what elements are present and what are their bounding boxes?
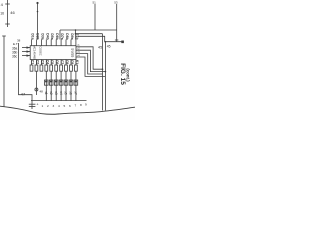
- connector blob: [121, 41, 124, 44]
- wire bottom w2: [45, 71, 47, 100]
- wire bottom w4: [55, 71, 57, 100]
- wire bottom w8: [75, 71, 77, 100]
- wire: U1 left pin 2: [22, 51, 30, 53]
- junction dot rail B: [75, 33, 77, 35]
- svg-text:D9a: D9a: [70, 33, 74, 39]
- junction dot V3: [102, 68, 104, 70]
- svg-text:D1a: D1a: [31, 33, 35, 39]
- box fills: [45, 81, 77, 83]
- svg-text:45: 45: [107, 44, 111, 48]
- wire: right pin 3 route: [76, 54, 103, 74]
- svg-text:3: 3: [53, 104, 55, 108]
- wire V1: [94, 4, 96, 30]
- continuation break line: [0, 106, 135, 114]
- wire: right pin 2 route: [76, 50, 105, 71]
- U1 right pin labels: [71, 44, 80, 58]
- svg-text:6: 6: [69, 104, 71, 108]
- svg-text:36c: 36c: [12, 54, 18, 58]
- svg-text:1: 1: [42, 104, 44, 108]
- svg-text:7: 7: [75, 104, 77, 108]
- svg-text:D4b: D4b: [45, 33, 49, 39]
- svg-text:s7: s7: [74, 91, 78, 95]
- junction dot: [37, 11, 39, 13]
- svg-text:s3: s3: [54, 91, 58, 95]
- svg-text:53: 53: [114, 0, 118, 4]
- wire: U1 left pin 1: [22, 47, 30, 49]
- svg-text:s6: s6: [69, 91, 73, 95]
- bottom pin stubs: [32, 60, 76, 66]
- wire bottom w5: [60, 71, 62, 100]
- svg-text:s4: s4: [59, 91, 63, 95]
- connector symbol: [35, 88, 38, 91]
- arrowhead pin 1: [27, 46, 31, 48]
- wire: clock lead up from pin: [37, 3, 39, 39]
- svg-text:D6b: D6b: [55, 33, 59, 39]
- capacitor C1 plates: [29, 103, 36, 105]
- wire bottom w7: [70, 71, 72, 100]
- svg-text:MC145480: MC145480: [33, 45, 37, 60]
- wire: feed bus to bottom: [19, 43, 33, 109]
- bottom pin boxes: [30, 65, 77, 71]
- tick on left bus top: [2, 35, 6, 37]
- wire V3: [102, 34, 104, 111]
- svg-text:CODEC: CODEC: [39, 46, 43, 55]
- terminal dot top: [36, 2, 38, 4]
- svg-text:s1: s1: [44, 91, 48, 95]
- svg-text:5: 5: [64, 104, 66, 108]
- labels below rail C: [42, 103, 88, 109]
- bottom pin labels (rotated): [31, 60, 79, 64]
- wire: left bus: [3, 36, 5, 107]
- wire bottom w6: [65, 71, 67, 100]
- svg-text:+: +: [37, 103, 39, 107]
- junction dot V4: [105, 71, 107, 73]
- terminal tick lower: [5, 23, 10, 25]
- top pin labels (rotated): [31, 33, 79, 39]
- rail B2: [78, 36, 122, 41]
- svg-text:D8b: D8b: [65, 33, 69, 39]
- svg-text:s5: s5: [64, 91, 68, 95]
- svg-text:4: 4: [58, 104, 60, 108]
- svg-text:48: 48: [40, 90, 44, 94]
- labels under wires: [44, 91, 78, 95]
- svg-text:(cont.): (cont.): [126, 68, 131, 82]
- wire bottom w1: [35, 71, 37, 95]
- wire: U1 left pin 3: [22, 55, 30, 57]
- svg-text:46: 46: [10, 10, 15, 15]
- wire: right pin 1 route: [76, 47, 103, 69]
- svg-text:D7a: D7a: [60, 33, 64, 39]
- component boxes row: [45, 80, 78, 85]
- svg-text:2: 2: [47, 104, 49, 108]
- svg-text:16: 16: [0, 12, 4, 16]
- svg-text:45: 45: [98, 46, 102, 50]
- svg-text:D5a: D5a: [50, 33, 54, 39]
- svg-text:8: 8: [80, 103, 82, 107]
- wire: top-left supply lead: [7, 0, 9, 27]
- wire: pin up to rail A: [59, 30, 61, 40]
- svg-text:s2: s2: [49, 91, 53, 95]
- wire: right pin 4 route: [76, 57, 105, 76]
- terminal tick upper: [5, 3, 10, 5]
- wire bottom w3: [50, 71, 52, 100]
- junction dot rail A: [75, 29, 77, 31]
- rail C: [31, 100, 87, 102]
- IC U1 body: [30, 46, 76, 60]
- svg-text:D3a: D3a: [40, 33, 44, 39]
- wire V4: [104, 42, 106, 111]
- wire: pin up to rail A right: [75, 30, 77, 40]
- svg-text:51: 51: [93, 0, 97, 4]
- svg-text:9: 9: [85, 103, 87, 107]
- wire V2: [116, 4, 118, 42]
- junction dot V4 top: [105, 41, 107, 43]
- rail B: [76, 33, 103, 35]
- rail A: [60, 29, 117, 31]
- arrowhead pin 3: [27, 54, 31, 56]
- top pin stubs: [32, 40, 76, 46]
- svg-text:FIG. 15: FIG. 15: [119, 63, 126, 85]
- svg-text:47: 47: [21, 92, 26, 97]
- arrowhead pin 2: [27, 50, 31, 52]
